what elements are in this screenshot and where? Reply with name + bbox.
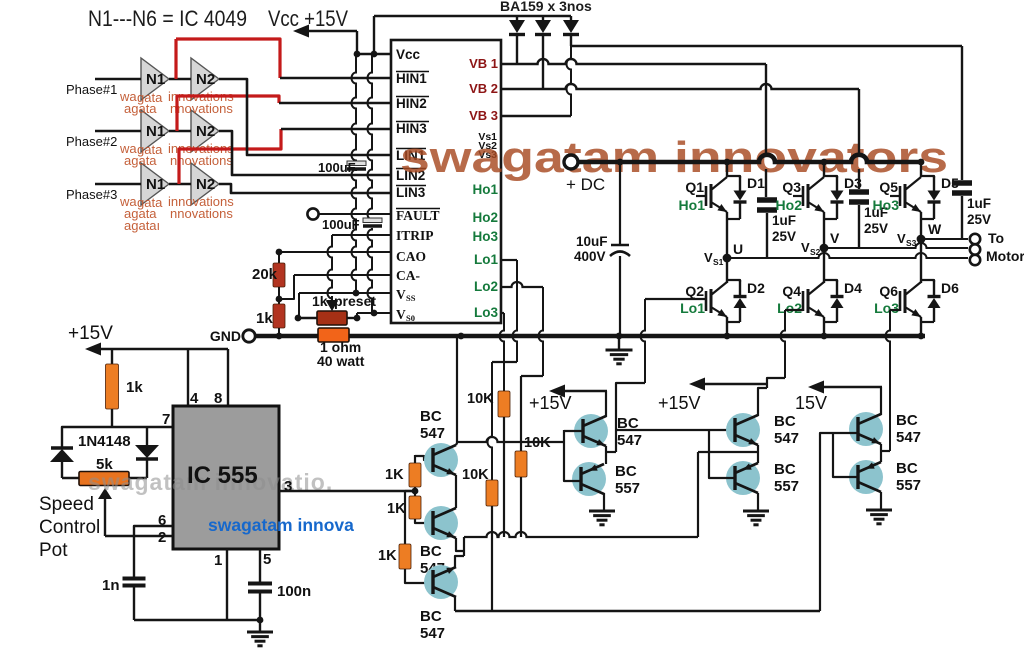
svg-text:V: V xyxy=(396,307,406,322)
wire Q6 collector xyxy=(920,239,922,283)
svg-text:S2: S2 xyxy=(810,247,821,257)
svg-text:BC: BC xyxy=(896,412,918,429)
resistor 1k lower xyxy=(278,299,280,304)
svg-text:N1: N1 xyxy=(146,71,165,88)
wire VB1 cap column xyxy=(765,64,767,155)
wire HIN1 black xyxy=(280,77,391,79)
svg-text:V: V xyxy=(801,240,810,255)
node Vs1 U xyxy=(723,254,732,263)
wire pin2 xyxy=(105,535,173,537)
svg-text:100n: 100n xyxy=(277,583,311,600)
wire HIN2 black xyxy=(279,102,391,104)
svg-text:557: 557 xyxy=(896,477,921,494)
wire decoupling column B (Vcc to Vs0) xyxy=(368,54,373,220)
capacitor 10uF 400V xyxy=(619,162,621,244)
svg-text:BA159 x 3nos: BA159 x 3nos xyxy=(500,0,592,14)
transistor Q3 xyxy=(793,195,803,197)
svg-text:Lo3: Lo3 xyxy=(474,305,498,320)
wire +15V rail 555 xyxy=(94,348,228,351)
svg-text:1k: 1k xyxy=(126,379,143,396)
wire Lo2 to 10K column xyxy=(501,282,543,287)
svg-text:BC: BC xyxy=(420,408,442,425)
wire N1-N2 link row3 xyxy=(169,183,191,185)
capacitor 1uF 25V leg3 xyxy=(849,189,869,195)
resistor 1K third xyxy=(405,490,415,492)
buffer N2 row1 xyxy=(191,58,219,100)
wire bottom long line to pair3 xyxy=(455,610,820,613)
svg-text:10K: 10K xyxy=(462,467,489,483)
svg-text:1k: 1k xyxy=(312,293,328,309)
wire pair3 +15V arrow xyxy=(817,386,882,389)
svg-text:1K: 1K xyxy=(387,501,406,517)
transistor pair 2 BC557 xyxy=(726,461,760,495)
svg-text:Ho2: Ho2 xyxy=(472,210,498,225)
diode 1N4148 right xyxy=(146,427,148,445)
svg-text:V: V xyxy=(830,230,840,246)
svg-text:Motor: Motor xyxy=(986,248,1024,264)
transistor Q4 xyxy=(802,291,805,311)
svg-text:S1: S1 xyxy=(713,257,724,267)
svg-text:Q2: Q2 xyxy=(685,283,704,299)
wire pair2 collector to Q4 gate xyxy=(758,388,767,416)
svg-text:40 watt: 40 watt xyxy=(317,353,365,369)
wire pair1 output to Q2 gate xyxy=(606,451,616,453)
wire pair1 base feed line xyxy=(457,437,564,442)
node Vs3 W xyxy=(917,235,926,244)
wire Q4 collector xyxy=(823,248,825,283)
svg-text:5: 5 xyxy=(263,551,271,568)
wire Q5 emitter to phase node xyxy=(920,212,922,239)
svg-text:1uF: 1uF xyxy=(967,196,991,211)
diode D3 xyxy=(824,176,837,178)
wire pair2 output line 537 xyxy=(464,532,698,537)
svg-text:GND: GND xyxy=(210,328,241,344)
wire preset left lead xyxy=(298,317,317,319)
wire CAO line xyxy=(279,251,391,253)
svg-text:N2: N2 xyxy=(196,176,215,193)
svg-text:1k: 1k xyxy=(256,310,273,327)
wire pair2 base feed xyxy=(616,429,735,431)
wire 10K second lower xyxy=(520,477,522,537)
wire Q3 collector xyxy=(823,162,825,177)
resistor 10K first xyxy=(498,391,510,417)
svg-text:547: 547 xyxy=(617,432,642,449)
svg-text:25V: 25V xyxy=(864,221,888,236)
wire red HIN1 route xyxy=(174,39,177,79)
svg-text:CA-: CA- xyxy=(396,268,420,283)
svg-text:N2: N2 xyxy=(196,123,215,140)
svg-text:preset: preset xyxy=(334,293,376,309)
svg-text:VB 3: VB 3 xyxy=(469,108,498,123)
wire pair1 collector xyxy=(605,391,607,417)
wire decoupling column A (Vcc to Vss) xyxy=(352,54,357,162)
wire pair3 collector xyxy=(880,387,882,415)
node Phase#3 input wire xyxy=(95,183,141,185)
svg-text:Ho2: Ho2 xyxy=(776,197,803,213)
svg-text:Ho1: Ho1 xyxy=(472,182,498,197)
svg-text:7: 7 xyxy=(162,411,170,428)
wire N2 row1 output to LIN1 xyxy=(219,79,391,155)
wire HIN3 black xyxy=(281,128,391,130)
wire Q1 emitter to phase node xyxy=(726,212,728,258)
wire VB2 to bootstrap cap2 xyxy=(501,84,859,89)
node 555 gnd dot xyxy=(257,617,264,624)
node pin3 node dot xyxy=(412,488,419,495)
node Vcc junction dots xyxy=(354,51,361,58)
svg-text:N2: N2 xyxy=(196,71,215,88)
svg-text:N1---N6 = IC 4049: N1---N6 = IC 4049 xyxy=(88,6,247,31)
wire Vcc pin line xyxy=(357,53,391,55)
svg-text:Lo3: Lo3 xyxy=(874,300,899,316)
transistor pair 2 BC547 xyxy=(726,413,760,447)
wire +15V top rail xyxy=(374,15,571,17)
diode D2 xyxy=(727,280,740,282)
wire pair1 bases xyxy=(564,430,581,481)
svg-text:1uF: 1uF xyxy=(772,213,796,228)
wire GND bus xyxy=(256,334,925,339)
svg-text:S3: S3 xyxy=(906,238,917,248)
wire BC547A collector to bus xyxy=(456,336,457,445)
transistor BC547 A xyxy=(424,443,458,477)
svg-text:15V: 15V xyxy=(795,393,827,413)
svg-text:V: V xyxy=(704,250,713,265)
resistor 10K third xyxy=(486,480,498,506)
svg-text:Lo2: Lo2 xyxy=(474,279,498,294)
wire BC547B emitter xyxy=(456,538,464,551)
svg-text:VB 1: VB 1 xyxy=(469,56,498,71)
svg-text:swagatam innova: swagatam innova xyxy=(208,515,354,535)
wire VB3 riser xyxy=(567,46,572,116)
svg-text:1K: 1K xyxy=(378,548,397,564)
wire Lo1 to 10K column xyxy=(501,259,517,261)
svg-text:1N4148: 1N4148 xyxy=(78,433,131,450)
svg-text:400V: 400V xyxy=(574,249,606,264)
wire pair1 BC557 collector to gnd xyxy=(603,493,605,510)
ground pair1 xyxy=(589,510,615,513)
wire +DC bus xyxy=(578,155,920,162)
svg-text:D6: D6 xyxy=(941,280,959,296)
diode 1N4148 left xyxy=(51,446,73,449)
capacitor 1uF 25V leg5 xyxy=(952,180,972,186)
buffer N2 row3 xyxy=(191,163,219,205)
svg-text:10K: 10K xyxy=(467,391,494,407)
node Phase#1 input wire xyxy=(95,78,141,80)
svg-text:Pot: Pot xyxy=(39,540,68,561)
svg-text:CAO: CAO xyxy=(396,249,426,264)
transistor Q2 xyxy=(705,291,708,311)
svg-text:Ho3: Ho3 xyxy=(873,197,900,213)
ground pair3 xyxy=(866,509,892,512)
wire Q6 emitter to gnd bus xyxy=(920,317,922,336)
svg-text:agata: agata xyxy=(124,101,157,116)
svg-text:VB 2: VB 2 xyxy=(469,81,498,96)
wire pin5 xyxy=(259,549,261,582)
wire Q2 emitter to gnd bus xyxy=(726,317,728,336)
svg-text:agataı: agataı xyxy=(124,218,160,233)
wire pair3 emitters xyxy=(880,444,882,462)
capacitor 1uF 25V leg1 xyxy=(757,197,777,203)
wire pin1 xyxy=(226,549,228,620)
wire preset wiper column xyxy=(328,235,333,300)
node Phase#2 input wire xyxy=(95,130,141,132)
svg-text:D4: D4 xyxy=(844,280,862,296)
wire 10K third lower xyxy=(491,506,493,611)
svg-text:2: 2 xyxy=(158,529,166,546)
wire N1-N2 link row2 xyxy=(169,130,191,132)
wire pair2 output left xyxy=(698,451,758,453)
svg-text:20k: 20k xyxy=(252,266,278,283)
svg-text:V: V xyxy=(396,287,406,302)
wire pin6 xyxy=(134,526,173,577)
resistor 1K second xyxy=(414,491,416,496)
transistor BC547 B xyxy=(424,506,458,540)
wire pair2 +15V arrow xyxy=(698,383,767,386)
svg-text:547: 547 xyxy=(420,625,445,642)
diode BA159 b xyxy=(542,16,544,21)
wire 1K first to base xyxy=(414,455,416,457)
transistor pair 1 BC557 xyxy=(572,462,606,496)
wire N1-N2 link row1 xyxy=(169,78,191,80)
wire BC547A emitter chain xyxy=(455,475,457,508)
wire Vss line xyxy=(299,292,391,294)
terminal FAULT open circle xyxy=(307,208,318,219)
resistor 1k preset xyxy=(317,311,347,325)
watermark fragments orange xyxy=(119,89,234,233)
svg-text:+15V: +15V xyxy=(529,393,572,413)
svg-text:Q5: Q5 xyxy=(879,179,898,195)
svg-text:25V: 25V xyxy=(772,229,796,244)
terminal +DC circle xyxy=(564,155,578,169)
svg-text:547: 547 xyxy=(896,429,921,446)
svg-text:4: 4 xyxy=(190,390,199,407)
svg-text:ITRIP: ITRIP xyxy=(396,228,434,243)
svg-text:N1: N1 xyxy=(146,176,165,193)
transistor Q1 xyxy=(696,195,706,197)
svg-text:+15V: +15V xyxy=(68,323,113,344)
transistor Q5 xyxy=(890,195,900,197)
wire 10K first lower xyxy=(503,417,505,537)
terminal To Motor circles xyxy=(970,234,980,244)
svg-text:Phase#2: Phase#2 xyxy=(66,134,117,149)
ground pair2 xyxy=(743,510,769,513)
wire BC547C collector down xyxy=(454,596,456,611)
svg-text:Ho3: Ho3 xyxy=(472,229,498,244)
capacitor 100n xyxy=(248,582,272,586)
svg-text:Phase#3: Phase#3 xyxy=(66,187,117,202)
buffer N1 row1 xyxy=(141,58,169,100)
svg-text:+15V: +15V xyxy=(658,393,701,413)
wire preset right lead xyxy=(347,317,357,319)
svg-text:1n: 1n xyxy=(102,577,120,594)
svg-text:BC: BC xyxy=(420,608,442,625)
svg-text:Ho1: Ho1 xyxy=(679,197,706,213)
wire red HIN3 route xyxy=(179,129,281,184)
Vcc +15V arrow xyxy=(302,30,357,33)
transistor BC547 C xyxy=(424,565,458,599)
wire BC547C emitter up xyxy=(455,556,464,568)
wire W phase line xyxy=(921,238,968,240)
wire red HIN2 route xyxy=(177,96,279,131)
svg-text:1K: 1K xyxy=(385,467,404,483)
node Vs2 V xyxy=(820,244,829,253)
transistor pair 3 BC547 xyxy=(849,412,883,446)
svg-text:BC: BC xyxy=(420,543,442,560)
diode D5 xyxy=(921,176,934,178)
svg-text:HIN1: HIN1 xyxy=(396,71,427,86)
wire pair1 +15V arrow xyxy=(558,390,607,393)
buffer N2 row2 xyxy=(191,110,219,152)
svg-text:557: 557 xyxy=(615,480,640,497)
wire N2 row2 output to LIN2 xyxy=(219,131,391,175)
capacitor 100uF upper xyxy=(347,161,366,166)
ground 555 xyxy=(259,620,261,631)
resistor 1k 555 xyxy=(111,349,113,364)
transistor pair 3 BC557 xyxy=(849,460,883,494)
svg-text:BC: BC xyxy=(774,413,796,430)
buffer N1 row2 xyxy=(141,110,169,152)
svg-text:10uF: 10uF xyxy=(576,234,608,249)
wire pair3 bases link xyxy=(833,433,858,477)
svg-text:Phase#1: Phase#1 xyxy=(66,82,117,97)
wire diode3 to cap D5 top xyxy=(571,45,962,47)
resistor 1K first xyxy=(414,487,416,491)
svg-text:1: 1 xyxy=(214,552,222,569)
svg-text:SS: SS xyxy=(406,293,416,303)
wire VB2 cap column xyxy=(858,89,860,155)
wire 555 bottom rail xyxy=(134,619,260,621)
resistor 20k xyxy=(278,252,280,263)
wire ITRIP line xyxy=(332,234,391,236)
wire U phase line xyxy=(727,253,968,258)
wire FAULT line xyxy=(319,213,391,215)
svg-text:Speed: Speed xyxy=(39,494,94,515)
wire Q5 collector xyxy=(920,162,922,177)
svg-text:BC: BC xyxy=(896,460,918,477)
svg-text:Lo1: Lo1 xyxy=(680,300,705,316)
svg-text:N1: N1 xyxy=(146,123,165,140)
svg-text:3: 3 xyxy=(284,478,292,495)
resistor 10K second xyxy=(515,451,527,477)
wire pin3 output xyxy=(279,490,415,492)
transistor Q6 xyxy=(899,291,902,311)
wire pair3 output to Q6 gate xyxy=(881,450,890,452)
wire Q4 emitter to gnd bus xyxy=(823,317,825,336)
wire Vcc elbow to IC xyxy=(356,31,358,54)
wire Lo3 to 10K column xyxy=(501,312,504,314)
wire pair2 BC557 collector to gnd xyxy=(757,493,759,510)
wire pair2 bases xyxy=(709,430,735,478)
diode BA159 a xyxy=(516,16,518,21)
svg-text:agata: agata xyxy=(124,153,157,168)
svg-text:Q1: Q1 xyxy=(685,179,704,195)
wire Q3 emitter to phase node xyxy=(823,212,825,248)
svg-text:HIN2: HIN2 xyxy=(396,96,427,111)
resistor 1 ohm 40 watt xyxy=(318,328,349,342)
svg-text:25V: 25V xyxy=(967,212,991,227)
capacitor 1n xyxy=(123,577,146,581)
svg-text:To: To xyxy=(988,230,1004,246)
svg-text:547: 547 xyxy=(774,430,799,447)
node DC bus junction dots xyxy=(617,159,624,166)
svg-text:Vcc: Vcc xyxy=(396,47,421,62)
ground below 10uF xyxy=(618,336,620,349)
wire Vs0 line xyxy=(357,312,391,314)
wire pair3 base riser xyxy=(820,433,858,611)
wire output node column xyxy=(463,537,465,556)
svg-text:S0: S0 xyxy=(406,313,415,323)
svg-text:LIN3: LIN3 xyxy=(396,185,426,200)
diode D6 xyxy=(921,280,934,282)
node Vs0 junction dot xyxy=(371,310,378,317)
wire pair2 emitters xyxy=(757,445,759,463)
wire VB1 to bootstrap cap1 xyxy=(501,59,766,64)
svg-text:BC: BC xyxy=(774,461,796,478)
IC 555 box xyxy=(173,406,279,549)
wire 5k wiper xyxy=(98,488,112,499)
node Vss junction dot xyxy=(353,290,360,297)
buffer N1 row3 xyxy=(141,163,169,205)
svg-text:D1: D1 xyxy=(747,175,765,191)
svg-text:100uF: 100uF xyxy=(322,217,360,232)
transistor pair 1 BC547 xyxy=(574,414,608,448)
svg-text:Lo1: Lo1 xyxy=(474,252,498,267)
wire N2 row3 output to LIN3 xyxy=(219,184,391,193)
svg-text:Control: Control xyxy=(39,517,100,538)
svg-text:W: W xyxy=(928,221,942,237)
svg-text:nnovations: nnovations xyxy=(170,101,233,116)
capacitor 100uF lower xyxy=(363,218,382,223)
op-amp driver IC box xyxy=(391,40,501,323)
svg-text:Q4: Q4 xyxy=(782,283,801,299)
svg-text:nnovations: nnovations xyxy=(170,206,233,221)
svg-text:Q6: Q6 xyxy=(879,283,898,299)
svg-text:Lo2: Lo2 xyxy=(777,300,802,316)
svg-text:557: 557 xyxy=(774,478,799,495)
wire Q2 collector xyxy=(726,258,728,283)
svg-text:IC 555: IC 555 xyxy=(187,462,258,489)
wire pin7 line xyxy=(62,427,173,447)
svg-text:100uF: 100uF xyxy=(318,160,356,175)
wire CA- line xyxy=(294,274,391,276)
svg-text:+ DC: + DC xyxy=(566,175,605,194)
diode BA159 c xyxy=(570,16,572,21)
svg-text:FAULT: FAULT xyxy=(396,208,440,223)
wire pair3 BC557 collector to gnd xyxy=(880,492,882,509)
svg-text:D2: D2 xyxy=(747,280,765,296)
wire VB3 stub xyxy=(501,115,571,117)
wire Q1 collector xyxy=(726,162,728,177)
svg-text:547: 547 xyxy=(420,425,445,442)
wire V phase line xyxy=(824,243,968,248)
svg-text:U: U xyxy=(733,241,743,257)
svg-text:Q3: Q3 xyxy=(782,179,801,195)
wire VB3 cap column xyxy=(961,46,963,180)
wire pair1 emitters xyxy=(605,446,607,464)
svg-text:8: 8 xyxy=(214,390,222,407)
node GND bus junction dots xyxy=(276,333,283,340)
diode D1 xyxy=(727,176,740,178)
svg-text:BC: BC xyxy=(615,463,637,480)
svg-text:V: V xyxy=(897,231,906,246)
diode D4 xyxy=(824,280,837,282)
